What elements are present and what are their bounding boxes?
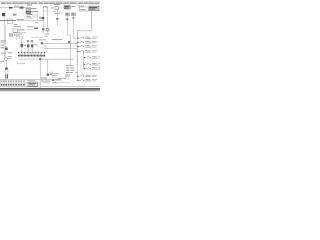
component box on W2 [8, 19, 13, 23]
node left-middle labels [9, 26, 38, 37]
wire from D2 down [72, 16, 77, 39]
wire lower-right light [58, 82, 71, 84]
wire W1 horizontal [0, 6, 31, 8]
ground G1 hatch [5, 74, 8, 79]
wire from SW0 down [55, 9, 60, 26]
switch SW6 row [84, 63, 104, 65]
connector C3 pin strip [18, 52, 45, 57]
wire pair center verticals [43, 7, 47, 33]
wire mid horizontal y29 [26, 29, 34, 31]
relay K1 gray box [88, 5, 100, 11]
battery B1 dark box [2, 13, 5, 16]
wire ladder bus [77, 31, 91, 81]
wire long y48.6 [44, 48, 77, 50]
node lower-center labels [52, 71, 62, 83]
wire sub-bus [83, 52, 85, 69]
wire x37.6 short vertical [35, 13, 39, 23]
motor M2 circle [4, 57, 7, 60]
wire bus left vertical pair [4, 16, 5, 57]
bottom gray band [0, 90, 100, 91]
wire under M2 [5, 61, 8, 74]
switch SW7 row [84, 67, 104, 69]
switch SW8 row [77, 75, 97, 77]
node under-strip label [17, 62, 25, 65]
lamp L1 [21, 39, 27, 52]
node F1 text rows [27, 14, 37, 19]
splice S1 on center verticals [39, 17, 49, 37]
switch SW1 row [77, 37, 97, 39]
wire top border line [0, 0, 100, 2]
node wire labels above table line [41, 78, 50, 84]
node left text column [1, 40, 7, 48]
lamp L2 [27, 40, 30, 52]
switch SW2 row [77, 41, 97, 43]
node wire W1 labels [9, 5, 32, 9]
label box T2 [27, 80, 37, 86]
switch SW0 small box [51, 4, 62, 14]
wire fanout under M1 [16, 37, 23, 40]
wire table top line [0, 79, 61, 81]
wire x40 down [39, 57, 41, 80]
parts table T1 [0, 80, 100, 89]
node text left mid [13, 14, 17, 16]
note block N1 [65, 65, 77, 77]
wire W2 long horizontal [0, 19, 44, 25]
node header text band [0, 3, 100, 4]
switch SW9 row [77, 79, 97, 81]
wire center vertical x70 [68, 35, 70, 65]
node lower-right dashes [58, 77, 66, 80]
diode D1 box [66, 13, 70, 16]
diode D2 box [72, 13, 76, 16]
connector C2 gray label [64, 6, 76, 10]
splice S2 dark blob [5, 48, 8, 50]
wire mid horizontal y37.7 [31, 37, 43, 39]
node left lower labels [1, 52, 13, 61]
connector C1 label box [78, 6, 88, 11]
wire bus under C3 [19, 58, 75, 60]
wire diagonal [43, 44, 48, 48]
wire from D1 down [66, 16, 70, 36]
switch SW5 row [84, 56, 104, 58]
bottom thick dark band [0, 88, 100, 89]
switch SW3 row [77, 45, 97, 47]
module M1 box [13, 29, 26, 36]
lamp L3 [31, 40, 38, 52]
switch SW4 row [77, 50, 97, 52]
fuse box F1 stack [26, 8, 38, 13]
wire long y43.5 [39, 39, 77, 44]
wire x47.8 down to splice [47, 59, 53, 76]
wire from relay K1 down [90, 11, 92, 31]
